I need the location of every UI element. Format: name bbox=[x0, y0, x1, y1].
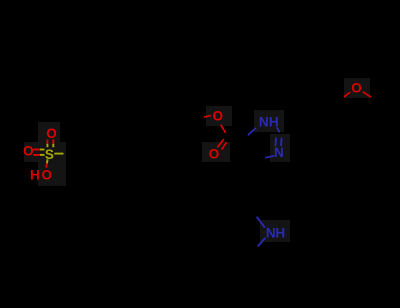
svg-text:H: H bbox=[269, 114, 279, 129]
svg-text:O: O bbox=[212, 109, 223, 124]
wire S-OH: red half bbox=[45, 163, 48, 167]
svg-text:N: N bbox=[259, 114, 269, 129]
wire O-C(=O) (red half) bbox=[221, 125, 226, 133]
wire N3-C4 (blue half) bbox=[265, 156, 274, 158]
svg-text:O: O bbox=[42, 168, 53, 183]
svg-text:N: N bbox=[266, 225, 276, 240]
svg-text:N: N bbox=[274, 145, 284, 160]
jpeg halo blocks bbox=[24, 78, 370, 242]
svg-text:O: O bbox=[46, 126, 57, 141]
svg-text:H: H bbox=[30, 168, 40, 183]
svg-text:O: O bbox=[209, 147, 220, 162]
wire ring-O (red half) bbox=[344, 92, 350, 97]
wire S to tolyl carbon (olive half) bbox=[54, 153, 63, 155]
wire N-CH3 (blue half, lower) bbox=[258, 238, 266, 247]
svg-text:O: O bbox=[23, 143, 34, 158]
sulfonic S=O top: olive half bbox=[46, 144, 48, 147]
carbonyl C=O double bond (red halves) bbox=[217, 139, 223, 147]
sulfonic S=O top: red half bbox=[46, 140, 48, 144]
C2=N3 double bond (blue halves) bbox=[274, 138, 277, 146]
wire O-methyl (red half) bbox=[363, 92, 371, 98]
wire N1-C2 (blue half) bbox=[277, 127, 280, 132]
svg-text:S: S bbox=[45, 147, 54, 162]
svg-text:O: O bbox=[351, 81, 362, 96]
wire N1-C5 (blue half) bbox=[248, 128, 256, 135]
wire methyl-O (red half) bbox=[204, 115, 211, 117]
sulfonic S=O left: red half bbox=[33, 149, 40, 151]
wire C-N (blue half, upper) bbox=[257, 217, 265, 228]
sulfonic S=O left: olive half bbox=[40, 149, 45, 151]
svg-text:H: H bbox=[275, 225, 285, 240]
wire S-OH: olive half bbox=[46, 159, 49, 163]
